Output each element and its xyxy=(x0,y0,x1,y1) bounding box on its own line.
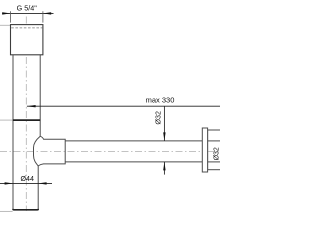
svg-text:Ø32: Ø32 xyxy=(154,111,163,125)
wire left leader to nut xyxy=(0,24,11,26)
outlet pipe top edge xyxy=(65,140,220,142)
bell intersection curve xyxy=(34,136,41,166)
cup right edge xyxy=(37,166,39,210)
cup bottom xyxy=(13,208,38,211)
dimension Ø32 xyxy=(154,106,166,174)
outlet pipe bottom edge xyxy=(65,161,220,163)
dimension max 330 xyxy=(27,95,220,107)
svg-text:max 330: max 330 xyxy=(146,95,175,104)
pipe tube left edge xyxy=(12,55,14,210)
dimension Ø44 xyxy=(0,175,52,185)
nut pipe lines xyxy=(208,140,220,142)
wall nut xyxy=(208,130,223,170)
nut G5/4 top xyxy=(11,25,43,55)
svg-text:Ø44: Ø44 xyxy=(20,175,33,183)
joint body top xyxy=(13,119,40,121)
wire left leader to joint xyxy=(0,119,13,121)
dimension G 5/4" xyxy=(2,4,53,23)
node horizontal centerline xyxy=(0,151,220,153)
nut centerline xyxy=(208,151,220,153)
wire left leader at bottom xyxy=(0,210,13,212)
flange rosette xyxy=(202,128,207,172)
pipe tube right edge xyxy=(39,55,41,137)
svg-text:Ø32: Ø32 xyxy=(213,147,220,160)
svg-text:G 5/4": G 5/4" xyxy=(17,4,38,13)
socket outline xyxy=(38,136,65,166)
node vertical centerline xyxy=(25,17,27,212)
hidden thread line in nut xyxy=(11,27,42,29)
